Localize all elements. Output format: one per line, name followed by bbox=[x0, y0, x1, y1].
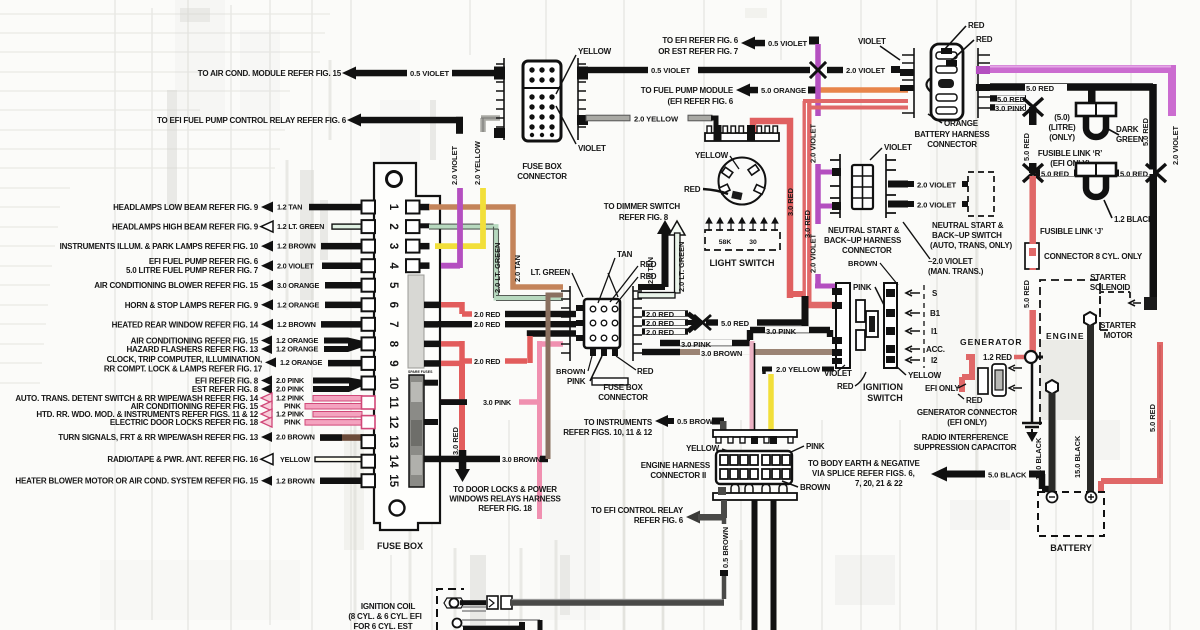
svg-text:3.0 RED: 3.0 RED bbox=[786, 187, 795, 216]
wire 5.0 black to battery bbox=[931, 467, 947, 482]
wire 0.5 brown riser above comb bbox=[720, 421, 727, 432]
svg-text:ELECTRIC DOOR LOCKS REFER FIG.: ELECTRIC DOOR LOCKS REFER FIG. 18 bbox=[110, 418, 259, 427]
svg-text:2.0 TAN: 2.0 TAN bbox=[513, 255, 522, 282]
wire 2.0 red from fuse 7 bbox=[438, 321, 472, 327]
svg-text:2.0 VIOLET: 2.0 VIOLET bbox=[917, 201, 957, 210]
wire 5.0 red pair from battery connector bbox=[803, 101, 812, 302]
wire 5.0 red (red) solenoid to battery + bbox=[1101, 342, 1163, 492]
svg-text:GENERATOR CONNECTOR: GENERATOR CONNECTOR bbox=[917, 408, 1018, 417]
svg-text:ENGINE HARNESS: ENGINE HARNESS bbox=[641, 461, 711, 470]
wire 3.0 brown horizontal bbox=[424, 456, 500, 463]
svg-text:FUSE BOX: FUSE BOX bbox=[522, 162, 562, 171]
svg-text:4: 4 bbox=[387, 262, 399, 269]
wire 5.0 red (black) top right bbox=[990, 84, 1153, 174]
splice X at fusible link R feed bbox=[1023, 98, 1043, 116]
svg-text:2.0 YELLOW: 2.0 YELLOW bbox=[776, 365, 821, 374]
svg-text:10: 10 bbox=[387, 377, 399, 390]
svg-text:2: 2 bbox=[387, 223, 399, 229]
svg-text:0.5 BROWN: 0.5 BROWN bbox=[721, 527, 730, 568]
svg-text:SPARE FUSES: SPARE FUSES bbox=[408, 370, 433, 374]
svg-text:2.0 BROWN: 2.0 BROWN bbox=[276, 433, 315, 442]
svg-text:VIOLET: VIOLET bbox=[884, 143, 912, 152]
svg-text:(8 CYL. & 6 CYL. EFI: (8 CYL. & 6 CYL. EFI bbox=[348, 612, 421, 621]
light switch resistor box (dashed) bbox=[705, 230, 780, 250]
fuse row 3 instruments illum and park lamps bbox=[60, 241, 362, 252]
wire 3.0 red (light switch feed) bbox=[753, 121, 790, 298]
svg-text:14: 14 bbox=[387, 455, 399, 468]
wire from coil terminal 2 bbox=[462, 620, 540, 626]
fuse strip (fuses) bbox=[408, 275, 424, 368]
fuse box bottom mounting hole bbox=[390, 501, 405, 516]
ignition switch body bbox=[884, 283, 897, 368]
fuse row 7 heated rear window bbox=[112, 319, 362, 330]
text connector 8 cyl only bbox=[1025, 243, 1039, 269]
svg-text:2.0 VIOLET: 2.0 VIOLET bbox=[846, 66, 886, 75]
middle fuse box connector left comb bbox=[561, 286, 570, 361]
wire yellow drop to engine harness bbox=[768, 374, 774, 430]
fuse row 2 headlamps high beam (open arrow, lt green) bbox=[112, 221, 362, 232]
middle fuse box connector right comb bbox=[633, 286, 642, 361]
wire 5.0 red row with fusible link J bbox=[1036, 170, 1153, 177]
svg-text:1.2 TAN: 1.2 TAN bbox=[277, 203, 302, 212]
svg-text:1.2 RED: 1.2 RED bbox=[983, 353, 1012, 362]
svg-text:YELLOW: YELLOW bbox=[908, 371, 942, 380]
svg-text:(AUTO, TRANS, ONLY): (AUTO, TRANS, ONLY) bbox=[930, 241, 1013, 250]
right side stubs bbox=[420, 204, 442, 425]
light switch connector comb bbox=[705, 133, 779, 141]
svg-text:MOTOR: MOTOR bbox=[1104, 331, 1133, 340]
svg-text:1.2 BROWN: 1.2 BROWN bbox=[276, 476, 315, 485]
wire red elbows into ignition switch bbox=[790, 291, 803, 297]
svg-text:HEADLAMPS LOW BEAM REFER FIG.: HEADLAMPS LOW BEAM REFER FIG. 9 bbox=[113, 203, 259, 212]
light switch body bbox=[719, 158, 766, 205]
wire 5.0 red (black) continues down to solenoid bbox=[1150, 174, 1158, 302]
svg-text:HAZARD FLASHERS REFER FIG. 13: HAZARD FLASHERS REFER FIG. 13 bbox=[126, 345, 258, 354]
svg-text:PINK: PINK bbox=[853, 283, 872, 292]
svg-text:5.0 RED: 5.0 RED bbox=[1022, 132, 1031, 161]
svg-text:BROWN: BROWN bbox=[556, 367, 586, 376]
svg-text:STARTER: STARTER bbox=[1100, 321, 1136, 330]
svg-text:WINDOWS RELAYS HARNESS: WINDOWS RELAYS HARNESS bbox=[449, 495, 561, 504]
battery negative terminal bbox=[1047, 492, 1058, 503]
svg-text:B1: B1 bbox=[930, 309, 941, 318]
middle fuse box connector body bbox=[584, 299, 620, 348]
svg-text:EFI FUEL PUMP REFER FIG. 6: EFI FUEL PUMP REFER FIG. 6 bbox=[149, 257, 259, 266]
svg-text:TO EFI FUEL PUMP CONTROL RELAY: TO EFI FUEL PUMP CONTROL RELAY REFER FIG… bbox=[157, 116, 347, 125]
svg-text:1.2 ORANGE: 1.2 ORANGE bbox=[280, 358, 323, 367]
svg-text:REFER FIG. 6: REFER FIG. 6 bbox=[634, 516, 684, 525]
svg-text:15: 15 bbox=[387, 474, 399, 487]
battery harness connector body bbox=[931, 44, 963, 120]
light switch resistor arrows bbox=[706, 218, 778, 231]
svg-text:VIOLET: VIOLET bbox=[858, 37, 886, 46]
fuse row 12 htd rr wdo mod (pink) bbox=[36, 409, 362, 427]
svg-text:REFER FIG. 18: REFER FIG. 18 bbox=[478, 504, 532, 513]
svg-text:CONNECTOR: CONNECTOR bbox=[598, 393, 648, 402]
svg-text:YELLOW: YELLOW bbox=[280, 455, 310, 464]
svg-text:TO INSTRUMENTS: TO INSTRUMENTS bbox=[584, 418, 653, 427]
svg-text:(EFI ONLY): (EFI ONLY) bbox=[947, 418, 987, 427]
wire 5.0 red salmon down to generator bbox=[1029, 176, 1036, 352]
wire black drops to bottom edge bbox=[752, 500, 758, 630]
svg-text:RED: RED bbox=[976, 35, 993, 44]
svg-text:RADIO INTERFERENCE: RADIO INTERFERENCE bbox=[922, 433, 1009, 442]
svg-text:13: 13 bbox=[387, 435, 399, 448]
battery dashed box bbox=[1038, 492, 1104, 536]
neutral start harness connector comb right bbox=[886, 154, 896, 218]
wire 2.0 lt green (to dimmer, open arrow) bbox=[669, 221, 685, 235]
svg-text:BROWN: BROWN bbox=[800, 483, 831, 492]
svg-text:FOR 6 CYL. EST: FOR 6 CYL. EST bbox=[354, 622, 413, 630]
battery harness connector left comb bbox=[902, 48, 914, 118]
svg-text:NEUTRAL START &: NEUTRAL START & bbox=[828, 226, 900, 235]
svg-text:RED: RED bbox=[640, 260, 657, 269]
splice X bbox=[694, 315, 711, 330]
svg-text:VIA SPLICE REFER FIGS. 6,: VIA SPLICE REFER FIGS. 6, bbox=[812, 469, 915, 478]
fuse row 5 air conditioning blower bbox=[94, 280, 362, 291]
fuse box top mounting hole bbox=[387, 172, 402, 187]
fuse row 9 clock trip computer bbox=[104, 355, 362, 374]
svg-text:2.0 RED: 2.0 RED bbox=[646, 310, 675, 319]
svg-text:RR COMPT. LOCK & LAMPS REFER F: RR COMPT. LOCK & LAMPS REFER FIG. 17 bbox=[104, 364, 263, 373]
svg-text:LIGHT SWITCH: LIGHT SWITCH bbox=[710, 258, 775, 268]
svg-text:HEADLAMPS HIGH BEAM REFER FIG.: HEADLAMPS HIGH BEAM REFER FIG. 9 bbox=[112, 223, 259, 232]
svg-text:5.0 BLACK: 5.0 BLACK bbox=[988, 471, 1027, 480]
engine harness bottom comb bbox=[713, 493, 797, 500]
engine harness top comb bbox=[713, 430, 797, 437]
svg-text:FUSE BOX: FUSE BOX bbox=[377, 541, 423, 551]
svg-text:RED: RED bbox=[684, 185, 701, 194]
svg-text:TO BODY EARTH & NEGATIVE: TO BODY EARTH & NEGATIVE bbox=[808, 459, 921, 468]
svg-text:EFI ONLY: EFI ONLY bbox=[925, 384, 960, 393]
svg-text:3.0 BROWN: 3.0 BROWN bbox=[502, 455, 541, 464]
svg-text:I2: I2 bbox=[931, 356, 938, 365]
starter motor bolt bbox=[1084, 312, 1096, 326]
fusible link J bbox=[1076, 163, 1116, 176]
svg-text:PINK: PINK bbox=[806, 442, 825, 451]
svg-text:30: 30 bbox=[749, 239, 757, 246]
svg-text:S: S bbox=[932, 289, 938, 298]
wire 2.0 yellow from fuse 3 bbox=[435, 188, 483, 249]
svg-text:IGNITION: IGNITION bbox=[863, 382, 903, 392]
generator connector (EFI only) bbox=[962, 357, 972, 392]
svg-text:YELLOW: YELLOW bbox=[578, 47, 612, 56]
fuse row 10 EFI / EST bbox=[192, 376, 362, 395]
svg-text:5.0 LITRE FUEL PUMP REFER FIG.: 5.0 LITRE FUEL PUMP REFER FIG. 7 bbox=[126, 266, 259, 275]
svg-text:EST REFER FIG. 8: EST REFER FIG. 8 bbox=[192, 385, 259, 394]
svg-text:0.5 VIOLET: 0.5 VIOLET bbox=[410, 69, 450, 78]
wire to air cond module bbox=[198, 67, 498, 80]
svg-text:5.0 RED: 5.0 RED bbox=[721, 319, 750, 328]
wire 0.5 brown vertical below comb bbox=[721, 500, 727, 518]
svg-text:6: 6 bbox=[387, 302, 399, 308]
svg-text:CLOCK, TRIP COMPUTER, ILLUMINA: CLOCK, TRIP COMPUTER, ILLUMINATION, bbox=[107, 355, 262, 364]
svg-text:HEATER BLOWER MOTOR OR AIR CON: HEATER BLOWER MOTOR OR AIR COND. SYSTEM … bbox=[15, 477, 258, 486]
svg-text:DARK: DARK bbox=[1116, 125, 1139, 134]
fuse row 14 radio/tape (yellow open) bbox=[107, 454, 362, 465]
salmon horizontals to battery connector bbox=[803, 99, 908, 103]
svg-text:2.0 RED: 2.0 RED bbox=[474, 320, 500, 329]
svg-text:(MAN. TRANS.): (MAN. TRANS.) bbox=[928, 267, 984, 276]
wire 2.0 lt green from fuse 2 bbox=[429, 227, 563, 298]
svg-text:3: 3 bbox=[387, 243, 399, 249]
branch to fusible link R bbox=[1036, 87, 1092, 103]
svg-text:5.0 ORANGE: 5.0 ORANGE bbox=[761, 86, 806, 95]
wire 2.0 yellow (gray) to light switch bbox=[586, 115, 630, 121]
svg-text:11: 11 bbox=[387, 396, 399, 409]
fuse row 8 air conditioning / hazard flashers bbox=[126, 336, 362, 355]
wire 2.0 red lower (red) from fuses 8/9 bbox=[441, 336, 530, 364]
svg-text:0.5 VIOLET: 0.5 VIOLET bbox=[768, 39, 808, 48]
svg-text:BACK~UP HARNESS: BACK~UP HARNESS bbox=[824, 236, 902, 245]
battery positive terminal bbox=[1086, 492, 1097, 503]
svg-text:ENGINE: ENGINE bbox=[1046, 331, 1085, 341]
svg-text:2.0 VIOLET: 2.0 VIOLET bbox=[809, 123, 818, 163]
wire pink drop to engine harness bbox=[750, 341, 755, 432]
wire 5.0 red black run bbox=[706, 319, 718, 325]
wire 2.0 violet vertical bbox=[815, 44, 821, 286]
svg-text:58K: 58K bbox=[719, 239, 732, 246]
svg-text:3.0 RED: 3.0 RED bbox=[451, 426, 460, 455]
wire 5.0 red vertical (to connector 8cyl) bbox=[1029, 107, 1037, 173]
terminal B1 bbox=[906, 310, 920, 316]
svg-text:FUSIBLE LINK ‘R’: FUSIBLE LINK ‘R’ bbox=[1038, 149, 1102, 158]
wire 2.0 tan (to dimmer, solid arrow) bbox=[657, 220, 673, 234]
ignition switch middle parts bbox=[856, 300, 865, 322]
fuse row 6 horn and stop lamps bbox=[125, 299, 362, 310]
wire black stub to connector (third row) bbox=[530, 334, 576, 337]
svg-text:SUPPRESSION CAPACITOR: SUPPRESSION CAPACITOR bbox=[914, 443, 1017, 452]
terminal I2 bbox=[906, 357, 920, 363]
wire 16.0 black down bbox=[1049, 393, 1056, 493]
svg-text:3.0 PINK: 3.0 PINK bbox=[681, 340, 712, 349]
ignition coil dashed outline bbox=[437, 589, 464, 630]
svg-text:(5.0): (5.0) bbox=[1054, 113, 1070, 122]
engine dashed box bbox=[1040, 280, 1112, 425]
wire 5.0 orange bbox=[816, 87, 908, 93]
svg-text:HORN & STOP LAMPS REFER FIG. 9: HORN & STOP LAMPS REFER FIG. 9 bbox=[125, 301, 259, 310]
svg-text:3.0 PINK: 3.0 PINK bbox=[483, 398, 512, 407]
svg-text:REFER FIG. 8: REFER FIG. 8 bbox=[619, 213, 669, 222]
svg-text:(EFI REFER FIG. 6: (EFI REFER FIG. 6 bbox=[668, 97, 734, 106]
svg-text:16.0 BLACK: 16.0 BLACK bbox=[1034, 437, 1043, 480]
svg-text:TO DOOR LOCKS & POWER: TO DOOR LOCKS & POWER bbox=[453, 485, 557, 494]
svg-text:RED: RED bbox=[637, 367, 654, 376]
svg-text:5.0 RED: 5.0 RED bbox=[1148, 403, 1157, 432]
connector squares right column rows 1-4 bbox=[406, 201, 420, 273]
svg-text:IGNITION COIL: IGNITION COIL bbox=[361, 602, 416, 611]
svg-text:5: 5 bbox=[387, 282, 399, 289]
fuse box connector left comb bbox=[496, 58, 504, 140]
svg-text:CONNECTOR: CONNECTOR bbox=[927, 140, 977, 149]
svg-text:OR EST REFER FIG. 7: OR EST REFER FIG. 7 bbox=[658, 47, 739, 56]
svg-text:2.0 PINK: 2.0 PINK bbox=[276, 385, 305, 394]
svg-text:CONNECTOR: CONNECTOR bbox=[842, 246, 892, 255]
svg-text:5.0 RED: 5.0 RED bbox=[1041, 170, 1070, 179]
svg-text:3.0 PINK: 3.0 PINK bbox=[995, 104, 1026, 113]
wire 2.0 tan from fuse 1 bbox=[429, 207, 563, 287]
battery harness connector right comb bbox=[978, 48, 990, 118]
wire 2.0 red x3 converging bbox=[642, 310, 688, 316]
svg-text:0.5 VIOLET: 0.5 VIOLET bbox=[651, 66, 691, 75]
dashed line at terminals bbox=[923, 285, 925, 368]
svg-text:CONNECTOR II: CONNECTOR II bbox=[650, 471, 706, 480]
svg-text:5.0 RED: 5.0 RED bbox=[1120, 170, 1149, 179]
wire 0.5 violet (right of connector) bbox=[588, 67, 648, 73]
svg-text:1.2 ORANGE: 1.2 ORANGE bbox=[276, 345, 319, 354]
svg-text:RED: RED bbox=[966, 396, 983, 405]
svg-text:SWITCH: SWITCH bbox=[867, 393, 903, 403]
svg-text:RADIO/TAPE & PWR. ANT. REFER F: RADIO/TAPE & PWR. ANT. REFER FIG. 16 bbox=[107, 455, 258, 464]
svg-text:12: 12 bbox=[387, 416, 399, 429]
wire 2.0 violet stubs to switch bbox=[888, 181, 908, 188]
fuse box connector right comb bbox=[578, 58, 586, 140]
fuse row 11 auto trans detent (pink) bbox=[15, 393, 362, 411]
neutral start switch (dashed) bbox=[968, 172, 994, 216]
svg-text:2.0 RED: 2.0 RED bbox=[646, 328, 675, 337]
splice X bbox=[810, 62, 826, 78]
wire pink vertical drop bbox=[537, 341, 542, 519]
svg-text:CONNECTOR 8 CYL. ONLY: CONNECTOR 8 CYL. ONLY bbox=[1044, 252, 1143, 261]
neutral start harness connector comb left bbox=[830, 154, 840, 218]
svg-text:5.0 RED: 5.0 RED bbox=[997, 95, 1026, 104]
faint horizontal ruled lines left margin bbox=[0, 14, 330, 383]
splice X redraw on top bbox=[810, 62, 826, 78]
pin numbers 1-15 (rotated) bbox=[387, 204, 399, 488]
neutral start harness connector body bbox=[852, 165, 873, 209]
svg-text:2.0 VIOLET: 2.0 VIOLET bbox=[277, 261, 314, 270]
svg-text:(ONLY): (ONLY) bbox=[1049, 133, 1075, 142]
svg-text:GENERATOR: GENERATOR bbox=[960, 337, 1023, 347]
svg-text:PINK: PINK bbox=[284, 418, 302, 427]
wire to EFI fuel pump control relay bbox=[157, 114, 463, 134]
svg-text:BATTERY HARNESS: BATTERY HARNESS bbox=[914, 130, 990, 139]
fuse box connector body bbox=[523, 61, 561, 141]
svg-text:2.0 VIOLET: 2.0 VIOLET bbox=[809, 233, 818, 273]
svg-text:HEATED REAR WINDOW REFER FIG.: HEATED REAR WINDOW REFER FIG. 14 bbox=[112, 320, 259, 329]
svg-text:TO EFI CONTROL RELAY: TO EFI CONTROL RELAY bbox=[591, 506, 684, 515]
svg-text:8: 8 bbox=[387, 341, 399, 348]
fuse row 4 EFI fuel pump bbox=[126, 257, 362, 275]
wire from coil terminal 1 bbox=[460, 600, 486, 605]
ignition switch harness connector bbox=[836, 283, 850, 368]
svg-text:TO EFI REFER FIG. 6: TO EFI REFER FIG. 6 bbox=[662, 36, 738, 45]
coil connector plug bbox=[487, 596, 498, 609]
wire thick gray to 0.5 brown riser bbox=[510, 599, 724, 606]
wire salmon riser from battery pair elbow bbox=[841, 96, 843, 101]
svg-text:2.0 YELLOW: 2.0 YELLOW bbox=[473, 141, 482, 185]
black riser joining 5.0 red run bbox=[802, 296, 809, 326]
svg-text:1: 1 bbox=[387, 204, 399, 211]
svg-text:15.0 BLACK: 15.0 BLACK bbox=[1073, 435, 1082, 478]
svg-text:AIR CONDITIONING BLOWER REFER: AIR CONDITIONING BLOWER REFER FIG. 15 bbox=[94, 281, 258, 290]
svg-text:CONNECTOR: CONNECTOR bbox=[517, 172, 567, 181]
svg-text:TO FUEL PUMP MODULE: TO FUEL PUMP MODULE bbox=[641, 86, 734, 95]
svg-text:TURN SIGNALS, FRT & RR WIPE/WA: TURN SIGNALS, FRT & RR WIPE/WASH REFER F… bbox=[58, 433, 258, 442]
svg-text:5.0 RED: 5.0 RED bbox=[1022, 279, 1031, 308]
svg-text:2.0 RED: 2.0 RED bbox=[474, 357, 500, 366]
wire 2.0 red from fuse 6 (red elbow to black run) bbox=[441, 305, 462, 314]
svg-text:BACK~UP SWITCH: BACK~UP SWITCH bbox=[932, 231, 1002, 240]
junction circle bbox=[1025, 351, 1037, 363]
wire 3.0 pink from fuse 11 bbox=[441, 399, 465, 405]
svg-text:3.0 ORANGE: 3.0 ORANGE bbox=[277, 281, 320, 290]
svg-text:2.0 LT. GREEN: 2.0 LT. GREEN bbox=[493, 243, 502, 293]
starter solenoid terminal bbox=[1100, 292, 1130, 314]
svg-text:BROWN: BROWN bbox=[848, 259, 878, 268]
svg-text:SOLENOID: SOLENOID bbox=[1090, 283, 1131, 292]
svg-text:9: 9 bbox=[387, 360, 399, 366]
wire 5.0 red second + 3.0 pink stubs bbox=[990, 95, 1026, 101]
svg-text:TAN: TAN bbox=[617, 250, 633, 259]
wire brown vertical to connector bbox=[548, 295, 563, 459]
svg-text:GREEN: GREEN bbox=[1116, 135, 1144, 144]
svg-text:STARTER: STARTER bbox=[1090, 273, 1126, 282]
svg-text:BATTERY: BATTERY bbox=[1050, 543, 1092, 553]
svg-text:FUSIBLE LINK ‘J’: FUSIBLE LINK ‘J’ bbox=[1040, 227, 1103, 236]
ignition coil terminal 2 bbox=[453, 619, 462, 628]
svg-text:3.0 RED: 3.0 RED bbox=[803, 209, 812, 238]
fuse box outline bbox=[374, 163, 440, 530]
fuse row 15 heater blower motor bbox=[15, 476, 362, 486]
svg-text:RED: RED bbox=[640, 272, 657, 281]
svg-text:2.0 VIOLET: 2.0 VIOLET bbox=[450, 145, 459, 185]
wire 3.0 pink (black) stepped bbox=[660, 330, 830, 343]
svg-text:1.2 BROWN: 1.2 BROWN bbox=[277, 320, 316, 329]
svg-text:1.2 LT. GREEN: 1.2 LT. GREEN bbox=[277, 222, 324, 231]
svg-text:2.0 VIOLET: 2.0 VIOLET bbox=[917, 181, 957, 190]
svg-text:TO DIMMER SWITCH: TO DIMMER SWITCH bbox=[604, 202, 681, 211]
wire 2.0 yellow stub to ignition bbox=[762, 367, 772, 372]
ignition coil terminal 1 bbox=[450, 599, 459, 608]
svg-text:7: 7 bbox=[387, 321, 399, 327]
svg-text:VIOLET: VIOLET bbox=[578, 144, 606, 153]
fusible link R bbox=[1076, 103, 1116, 116]
svg-text:2.0 RED: 2.0 RED bbox=[646, 319, 675, 328]
svg-text:2.0 VIOLET: 2.0 VIOLET bbox=[1171, 125, 1180, 165]
svg-text:YELLOW: YELLOW bbox=[695, 151, 729, 160]
svg-text:1.2 BROWN: 1.2 BROWN bbox=[277, 242, 316, 251]
svg-text:(LITRE): (LITRE) bbox=[1048, 123, 1076, 132]
svg-text:TO AIR COND. MODULE REFER FIG.: TO AIR COND. MODULE REFER FIG. 15 bbox=[198, 69, 342, 78]
svg-text:2.0 LT. GREEN: 2.0 LT. GREEN bbox=[677, 242, 686, 292]
terminal ACC bbox=[906, 346, 920, 352]
engine harness connector II body bbox=[716, 451, 792, 484]
svg-text:–2.0 VIOLET: –2.0 VIOLET bbox=[928, 257, 973, 266]
terminal I1 bbox=[906, 328, 920, 334]
svg-text:RED: RED bbox=[968, 21, 985, 30]
fuse row 1 headlamps low beam bbox=[113, 202, 362, 213]
radio capacitor stem bbox=[1031, 363, 1034, 422]
wire 2.0 violet from fuse 4 bbox=[441, 188, 460, 268]
svg-text:3.0 BROWN: 3.0 BROWN bbox=[701, 349, 742, 358]
svg-text:NEUTRAL START &: NEUTRAL START & bbox=[932, 221, 1004, 230]
fuse row 13 turn signals bbox=[58, 432, 362, 442]
svg-text:RED: RED bbox=[837, 382, 854, 391]
terminal S bbox=[906, 290, 920, 296]
svg-text:1.2 BLACK: 1.2 BLACK bbox=[1114, 215, 1154, 224]
svg-text:I1: I1 bbox=[931, 327, 938, 336]
svg-text:5.0 RED: 5.0 RED bbox=[1026, 84, 1055, 93]
svg-text:PINK: PINK bbox=[567, 377, 586, 386]
svg-text:INSTRUMENTS ILLUM. & PARK LAMP: INSTRUMENTS ILLUM. & PARK LAMPS REFER FI… bbox=[60, 242, 259, 251]
svg-text:FUSE BOX: FUSE BOX bbox=[603, 383, 643, 392]
svg-text:ORANGE: ORANGE bbox=[944, 119, 979, 128]
light switch terminals bbox=[719, 165, 765, 195]
wire 15.0 black starter motor down bbox=[1087, 325, 1094, 495]
svg-text:1.2 ORANGE: 1.2 ORANGE bbox=[277, 300, 320, 309]
svg-text:2.0 YELLOW: 2.0 YELLOW bbox=[634, 115, 679, 124]
